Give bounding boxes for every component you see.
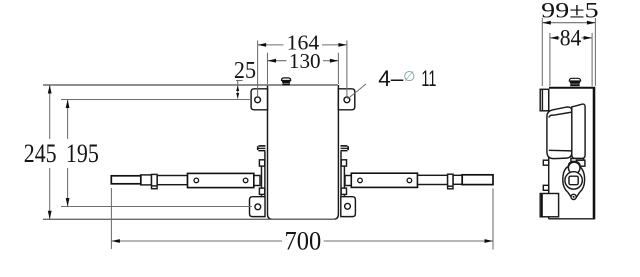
side clip upper: [543, 160, 548, 165]
right bracket plate: [341, 151, 344, 196]
dim 195 ext bottom: [61, 206, 252, 208]
dim 700 ext left: [110, 188, 112, 249]
left block neck: [254, 176, 260, 186]
left ear hole: [255, 97, 261, 103]
right shaft: [418, 175, 448, 184]
right bracket clip upper: [341, 160, 346, 166]
left arm thin neck: [141, 175, 152, 185]
dim 195 ext top: [61, 99, 251, 101]
side cam big circle: [565, 172, 582, 189]
side cam tab: [577, 160, 585, 166]
left bottom tab: [250, 197, 266, 217]
side cam top circle: [568, 162, 580, 174]
side top plate: [549, 87, 595, 89]
left block hole 2: [243, 178, 248, 183]
dim 25 line: [237, 81, 239, 99]
svg-text:130: 130: [289, 49, 321, 73]
dim 164 line: [258, 44, 284, 46]
side right wall: [593, 87, 596, 219]
top surface line: [43, 84, 338, 86]
right bottom tab: [341, 197, 356, 217]
side gear housing: [572, 104, 585, 158]
left bracket clip upper: [259, 160, 264, 166]
side clip lower: [543, 185, 548, 190]
bottom surface line: [43, 218, 336, 220]
dim 195 line: [67, 100, 69, 140]
left block hole 1: [194, 178, 199, 183]
left collar: [152, 174, 158, 188]
dim 130 line: [268, 60, 287, 62]
dim 700 ext right: [492, 189, 494, 250]
left bracket bolt: [257, 145, 266, 151]
dim 99+-5 ext lines: [541, 18, 543, 86]
left block: [188, 173, 254, 187]
side cam bottom hole: [571, 194, 576, 199]
side top-left tab: [540, 89, 549, 111]
side bearing boss: [571, 159, 584, 162]
dim 245 line: [49, 85, 51, 139]
side motor inner contour: [549, 112, 572, 151]
svg-text:99±5: 99±5: [541, 0, 598, 22]
dim 245 arrows: [48, 85, 52, 94]
side cam bottom dot: [573, 196, 575, 198]
right tip rod: [462, 175, 493, 185]
dim 195 arrows: [66, 100, 70, 109]
right block hole 2: [407, 178, 412, 183]
left bottom tab hole: [255, 204, 261, 210]
dim 84 line: [550, 37, 560, 39]
left arm tip rod: [111, 176, 141, 184]
right thin neck: [453, 175, 462, 184]
right collar notch: [448, 185, 453, 187]
body housing: [268, 85, 339, 219]
right bracket clip lower: [341, 188, 346, 194]
side cam square: [569, 176, 578, 185]
right bracket bolt: [341, 145, 350, 151]
right ear hole: [344, 97, 350, 103]
svg-text:245: 245: [24, 139, 57, 168]
side motor body: [547, 107, 572, 159]
dim 99+-5 arrows: [542, 21, 551, 25]
right top ear: [338, 89, 354, 110]
right collar: [448, 174, 453, 189]
svg-text:195: 195: [66, 139, 99, 168]
dim 164 arrows: [258, 43, 267, 47]
left shaft: [157, 176, 187, 185]
side top connector: [569, 78, 580, 86]
left bracket plate: [262, 151, 265, 196]
left bracket clip lower: [259, 188, 264, 194]
top connector on body: [282, 78, 291, 85]
side bottom: [549, 218, 595, 220]
svg-text:84: 84: [560, 26, 582, 51]
right block hole 1: [358, 178, 363, 183]
dim 99+-5 line: [542, 22, 595, 24]
dim 700 line: [111, 240, 282, 242]
dim 25 arrows: [236, 86, 239, 92]
right block: [351, 173, 417, 187]
side bottom-left tab: [540, 194, 558, 217]
svg-text:25: 25: [234, 58, 256, 84]
dim 84 arrows: [550, 36, 559, 40]
dim 130 arrows: [268, 59, 277, 63]
leader 4-d11: [348, 84, 367, 99]
left top ear: [251, 89, 267, 110]
dim 130 ext lines: [267, 53, 269, 84]
dim 84 ext handled by walls: [549, 33, 551, 86]
dim 700 arrows: [111, 239, 120, 243]
side cam teardrop: [563, 162, 585, 200]
left collar notch: [152, 185, 158, 187]
svg-text:700: 700: [285, 227, 322, 256]
right bottom tab hole: [345, 203, 351, 209]
side left wall: [548, 89, 550, 219]
dim 25 tick: [236, 80, 243, 82]
right block neck: [345, 176, 351, 186]
dim 164 ext lines: [257, 41, 259, 97]
